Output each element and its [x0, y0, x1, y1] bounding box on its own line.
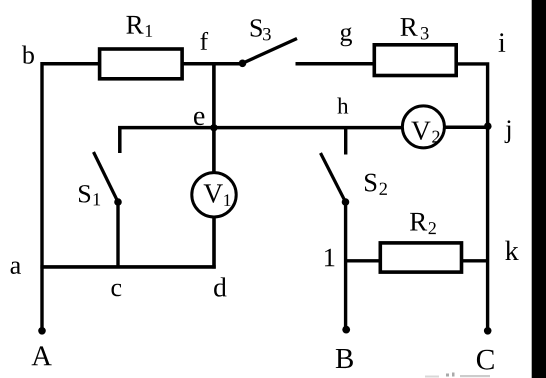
- wire R2 to k: [462, 259, 488, 262]
- wire S1 pivot down to c: [116, 202, 119, 267]
- wire b to R1 (top-left horizontal): [42, 62, 100, 66]
- switch S3 blade: [243, 39, 298, 64]
- wire V2 to j: [444, 125, 489, 129]
- switch S1 pivot dot: [114, 198, 122, 206]
- resistor R2: [380, 243, 461, 272]
- resistor R1 label: [126, 16, 152, 37]
- resistor R1: [100, 49, 183, 79]
- node j dot: [484, 122, 492, 130]
- terminal B label: [336, 349, 353, 368]
- node g label: [341, 27, 352, 46]
- voltmeter V1: [192, 173, 236, 217]
- wire left vertical b-a-A: [40, 62, 43, 331]
- switch S3 label: [251, 19, 271, 40]
- bottom wire a-c-d: [40, 265, 215, 269]
- terminal A label: [32, 346, 52, 365]
- node e label: [194, 112, 204, 125]
- switch S2 blade: [321, 153, 346, 202]
- wire R3 to corner i and right vertical i-j-k-C: [456, 62, 487, 331]
- switch S1 label: [79, 185, 100, 205]
- voltmeter V2: [402, 106, 444, 148]
- wire f down through e to V1: [212, 62, 216, 173]
- node b label: [22, 45, 34, 63]
- switch S1 blade: [94, 152, 119, 202]
- terminal C dot: [484, 327, 492, 335]
- node h label: [337, 98, 348, 114]
- node i label: [499, 33, 506, 52]
- node l label: [325, 249, 334, 266]
- node j label: [505, 120, 511, 143]
- voltmeter V1 label: [204, 184, 231, 206]
- wire l to R2: [346, 259, 381, 262]
- node d label: [214, 277, 226, 296]
- node a label: [11, 262, 21, 274]
- cropped faint text artifact at bottom edge: [425, 373, 490, 378]
- stub h down to S2 contact: [344, 128, 347, 155]
- resistor R3 label: [401, 18, 429, 39]
- middle wire e-h with left stub down to S1 contact: [120, 128, 402, 153]
- node e dot: [210, 124, 217, 131]
- resistor R3: [374, 45, 456, 76]
- terminal A dot: [38, 327, 46, 335]
- terminal B dot: [342, 326, 350, 334]
- resistor R2 label: [410, 213, 436, 234]
- switch S2 pivot dot: [342, 198, 350, 206]
- wire V1 bottom to d: [212, 217, 216, 269]
- right black border bar: [532, 0, 546, 378]
- wire R1 to S3 pivot: [182, 62, 242, 66]
- switch S2 label: [365, 174, 387, 195]
- node k label: [505, 241, 518, 260]
- voltmeter V2 label: [411, 122, 439, 143]
- wire S3 fixed contact to R3: [296, 62, 375, 66]
- wire S2 pivot down through l to B: [344, 202, 347, 329]
- switch S3 pivot dot: [239, 60, 247, 68]
- node f label: [200, 32, 208, 50]
- node c label: [112, 284, 122, 297]
- terminal C label: [477, 350, 494, 370]
